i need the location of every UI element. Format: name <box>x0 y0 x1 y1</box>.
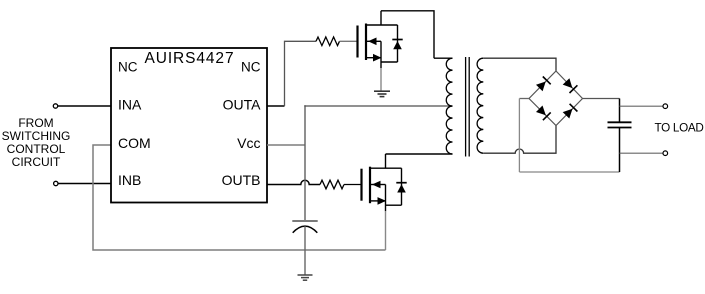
svg-text:INA: INA <box>118 96 142 112</box>
svg-text:NC: NC <box>241 60 261 75</box>
svg-text:SWITCHING: SWITCHING <box>2 129 71 143</box>
svg-text:Vcc: Vcc <box>237 135 260 151</box>
svg-text:NC: NC <box>118 60 138 75</box>
svg-text:COM: COM <box>118 135 151 151</box>
svg-text:TO LOAD: TO LOAD <box>655 122 704 135</box>
svg-text:AUIRS4427: AUIRS4427 <box>145 50 235 67</box>
svg-text:FROM: FROM <box>18 116 53 130</box>
svg-text:OUTB: OUTB <box>222 172 261 188</box>
svg-text:CONTROL: CONTROL <box>7 142 66 156</box>
svg-text:OUTA: OUTA <box>223 96 262 112</box>
svg-text:CIRCUIT: CIRCUIT <box>12 155 61 169</box>
svg-text:INB: INB <box>118 172 141 188</box>
